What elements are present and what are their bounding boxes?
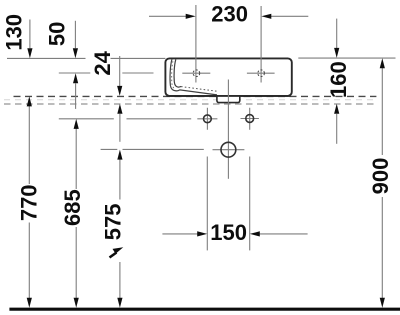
fixing hole left centerlines (197, 108, 217, 130)
tap hole 1 cross (182, 72, 210, 74)
svg-text:575: 575 (100, 204, 125, 241)
tap hole 1 dashed circle (193, 70, 200, 77)
fixing hole right circle (246, 115, 254, 123)
wire: light dashed line lower y=104 (4, 103, 376, 105)
dimension 50 lower arrow (73, 73, 78, 109)
wire: light dashed line upper y=99.7 (4, 99, 376, 101)
dimension 150 left arrow (162, 231, 207, 236)
drain hole circle (221, 142, 236, 157)
tap hole 2 dashed circle (258, 70, 265, 77)
basin hidden bowl line (dotted slope to drain) (181, 87, 219, 92)
fixing hole left circle (204, 115, 212, 123)
svg-text:900: 900 (368, 158, 393, 195)
wire: fixing-hole height reference line y=119 (59, 118, 191, 120)
drain recess under basin (217, 95, 240, 102)
dimension 230: left extension line (tap hole 1 centerline) (195, 5, 197, 83)
svg-text:130: 130 (1, 14, 26, 51)
floor line (9, 308, 400, 311)
dimension 150 left extension line (206, 157, 208, 251)
basin outline (side section) (165, 58, 291, 96)
basin inner wall inner profile (174, 59, 181, 87)
svg-text:50: 50 (45, 22, 70, 46)
svg-text:160: 160 (326, 61, 351, 98)
dimension 24 lower arrow (117, 104, 122, 142)
dimension 230 left arrow (149, 14, 196, 19)
dimension 770 line (27, 96, 32, 307)
dimension 230 right arrow (261, 14, 308, 19)
svg-text:685: 685 (60, 189, 85, 226)
tap hole 2 cross (247, 72, 275, 74)
svg-text:770: 770 (16, 184, 41, 221)
svg-text:150: 150 (210, 220, 247, 245)
dimension 150 right arrow (250, 231, 308, 236)
leader arrow for 575 (110, 247, 124, 257)
dimension 160 upper arrow (334, 19, 339, 58)
drain vertical centerline (227, 80, 229, 179)
dimension 24 upper arrow (117, 56, 122, 96)
dimension 150 right extension line (249, 157, 251, 251)
dimension 575 line (117, 150, 122, 308)
dimension 160 lower arrow (334, 104, 339, 144)
svg-text:24: 24 (90, 50, 115, 75)
dimension 685 line (74, 119, 79, 308)
dimension 900 line (380, 58, 385, 307)
basin hidden wall line (dotted) (172, 61, 176, 89)
wire: overflow level reference line (50 dim lower ref) (59, 72, 154, 74)
dimension 50 upper arrow (73, 21, 78, 58)
basin inner wall outer profile (170, 59, 217, 95)
wire: top surface reference line right segment (298, 57, 395, 59)
fixing hole right centerlines (241, 108, 259, 130)
wire: basin bottom edge over drain recess (167, 95, 291, 97)
wire: top surface reference line left segment (7, 57, 165, 59)
svg-text:230: 230 (211, 2, 248, 27)
dimension 230: right extension line (tap hole 2 centerline) (260, 6, 262, 83)
wire: drain height reference line y=149 (101, 148, 204, 150)
drain horizontal centerline (213, 149, 245, 151)
wire: dark dashed wall-bracket line y=96 (14, 95, 377, 97)
dimension 130 upper arrow (27, 20, 32, 59)
